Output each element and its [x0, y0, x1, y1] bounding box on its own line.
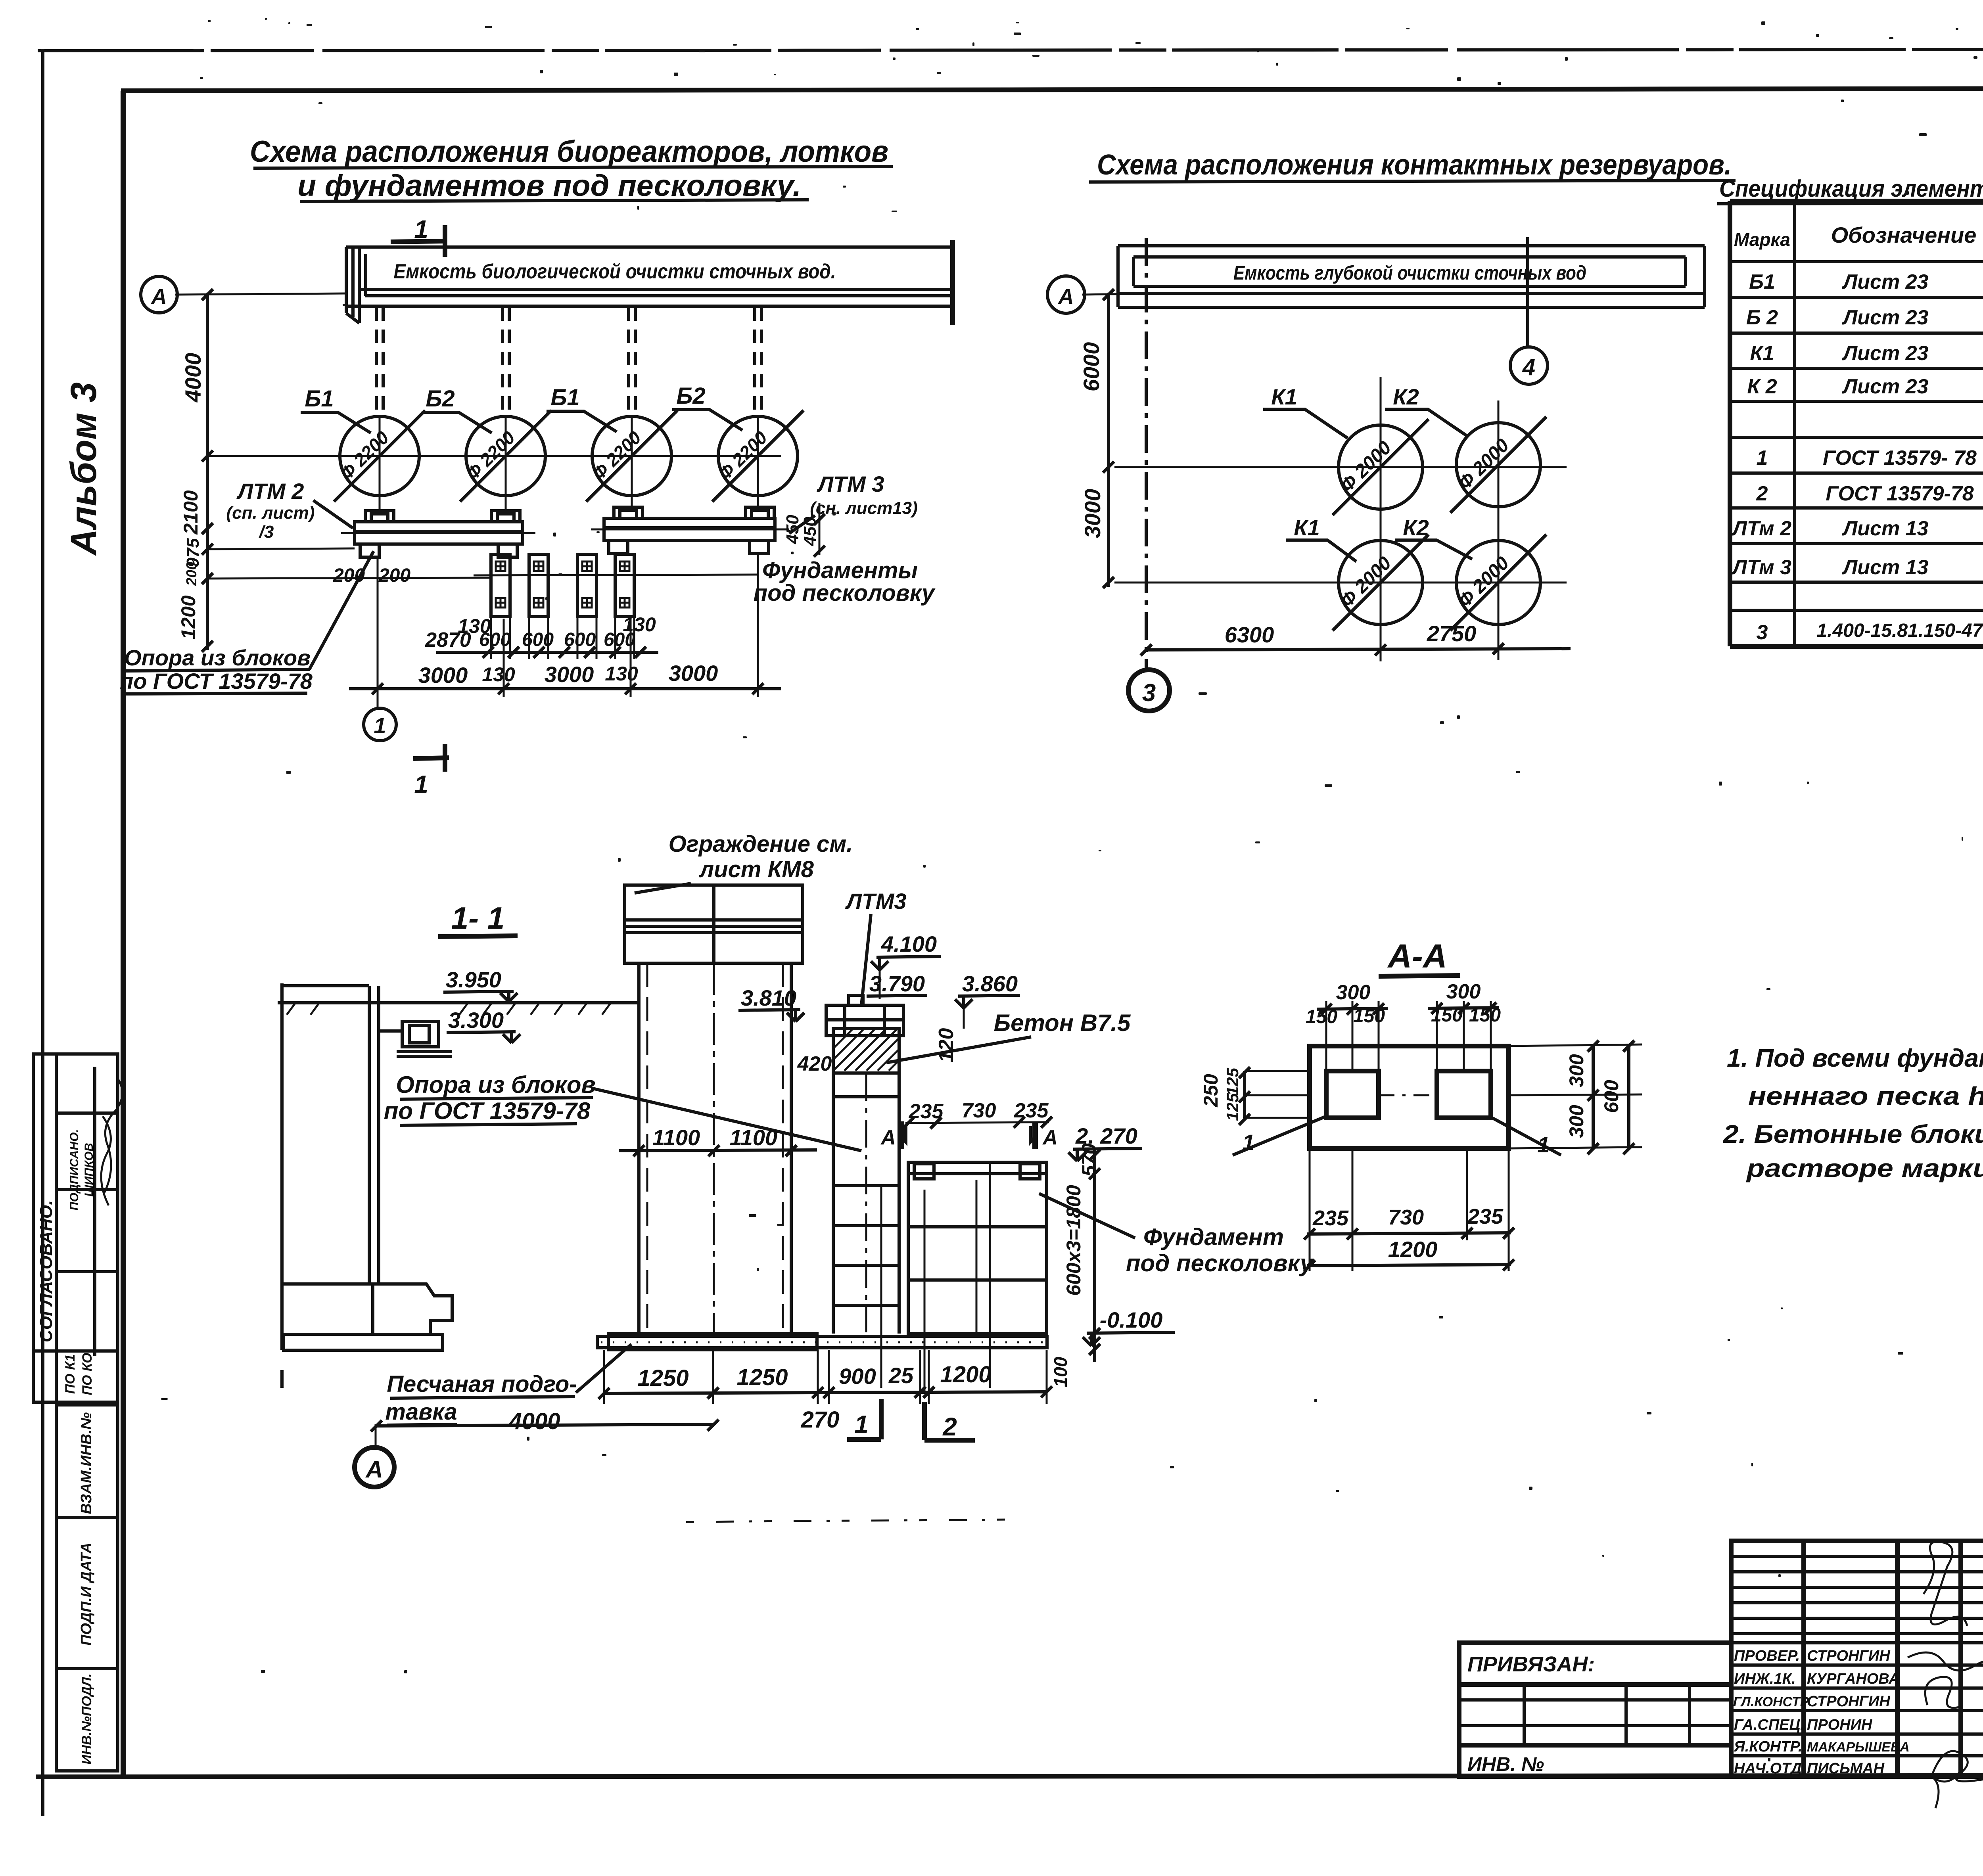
- svg-text:ПОДПИСАНО.: ПОДПИСАНО.: [68, 1129, 81, 1210]
- svg-text:Б1: Б1: [1749, 270, 1775, 293]
- svg-text:А: А: [151, 285, 167, 309]
- svg-text:Спецификация элементов к схеме: Спецификация элементов к схеме, располож…: [1719, 175, 1983, 202]
- svg-text:А: А: [1042, 1126, 1058, 1149]
- svg-text:ГЛ.КОНСТР: ГЛ.КОНСТР: [1733, 1694, 1809, 1709]
- svg-text:3.790: 3.790: [869, 971, 925, 996]
- svg-text:лист КМ8: лист КМ8: [698, 857, 814, 882]
- svg-text:ГА.СПЕЦ.: ГА.СПЕЦ.: [1734, 1717, 1805, 1733]
- svg-text:235: 235: [1312, 1206, 1349, 1230]
- svg-text:Фундамент: Фундамент: [1143, 1224, 1284, 1250]
- svg-text:3: 3: [1142, 679, 1156, 707]
- svg-text:730: 730: [1388, 1205, 1424, 1229]
- svg-text:А: А: [1058, 285, 1074, 309]
- svg-text:Лист 23: Лист 23: [1842, 342, 1929, 365]
- svg-text:ЛТМ 2: ЛТМ 2: [236, 479, 304, 504]
- svg-text:3000: 3000: [1080, 489, 1105, 538]
- svg-text:Я.КОНТР.: Я.КОНТР.: [1734, 1738, 1802, 1755]
- svg-text:1: 1: [374, 713, 386, 738]
- svg-text:125: 125: [1223, 1093, 1242, 1121]
- svg-text:250: 250: [1200, 1074, 1222, 1108]
- svg-text:СТРОНГИН: СТРОНГИН: [1807, 1693, 1891, 1710]
- svg-text:4000: 4000: [508, 1408, 560, 1434]
- svg-text:1: 1: [1537, 1132, 1550, 1157]
- svg-text:К1: К1: [1294, 515, 1320, 540]
- svg-text:ВЗАМ.ИНВ.№: ВЗАМ.ИНВ.№: [78, 1412, 95, 1514]
- svg-text:Альбом 3: Альбом 3: [63, 382, 104, 556]
- svg-text:Опора из блоков: Опора из блоков: [124, 645, 311, 670]
- svg-text:ПО К1: ПО К1: [63, 1354, 78, 1394]
- svg-text:120: 120: [935, 1028, 958, 1063]
- svg-text:600: 600: [479, 629, 511, 650]
- svg-text:растворе марки 50.: растворе марки 50.: [1746, 1154, 1983, 1182]
- svg-text:/3: /3: [259, 522, 274, 542]
- svg-text:К1: К1: [1750, 342, 1774, 365]
- svg-text:1: 1: [1757, 446, 1768, 469]
- svg-text:300: 300: [1336, 981, 1371, 1004]
- svg-text:600х3=1800: 600х3=1800: [1062, 1185, 1085, 1296]
- svg-text:200: 200: [378, 565, 410, 586]
- svg-text:Б1: Б1: [305, 386, 334, 412]
- svg-text:ПРИВЯЗАН:: ПРИВЯЗАН:: [1467, 1652, 1595, 1676]
- svg-text:600: 600: [564, 629, 596, 650]
- svg-text:Емкость глубокой очистки сточн: Емкость глубокой очистки сточных вод: [1233, 262, 1586, 284]
- svg-text:3000: 3000: [669, 661, 718, 686]
- svg-text:ГОСТ 13579- 78: ГОСТ 13579- 78: [1823, 446, 1977, 469]
- svg-text:-0.100: -0.100: [1100, 1307, 1163, 1332]
- svg-text:1200: 1200: [177, 595, 199, 639]
- svg-text:К1: К1: [1271, 384, 1297, 409]
- svg-text:Лист 23: Лист 23: [1842, 306, 1929, 329]
- svg-text:Схема расположения контактных: Схема расположения контактных резервуаро…: [1097, 149, 1732, 181]
- svg-text:Лист 23: Лист 23: [1842, 375, 1929, 398]
- svg-text:МАКАРЫШЕВА: МАКАРЫШЕВА: [1807, 1740, 1910, 1755]
- svg-text:по ГОСТ 13579-78: по ГОСТ 13579-78: [384, 1098, 591, 1124]
- svg-text:1200: 1200: [1388, 1237, 1438, 1262]
- svg-text:Лист 13: Лист 13: [1842, 556, 1929, 579]
- svg-text:А-А: А-А: [1387, 937, 1447, 975]
- svg-text:1- 1: 1- 1: [451, 901, 504, 935]
- svg-text:600: 600: [522, 629, 554, 650]
- svg-text:4000: 4000: [180, 353, 205, 403]
- svg-text:130: 130: [605, 663, 638, 685]
- svg-text:Ограждение см.: Ограждение см.: [669, 831, 853, 857]
- svg-text:6000: 6000: [1079, 342, 1104, 392]
- svg-text:(сп. лист): (сп. лист): [226, 503, 315, 523]
- svg-text:4: 4: [1522, 355, 1535, 380]
- svg-text:ЛТМ 3: ЛТМ 3: [817, 471, 884, 496]
- svg-text:ПРОНИН: ПРОНИН: [1807, 1717, 1873, 1733]
- svg-text:Песчаная подго-: Песчаная подго-: [387, 1371, 577, 1397]
- svg-text:300: 300: [1565, 1054, 1588, 1087]
- svg-text:СТРОНГИН: СТРОНГИН: [1807, 1648, 1891, 1664]
- svg-text:Б2: Б2: [426, 386, 455, 412]
- svg-text:и фундаментов под песколовку.: и фундаментов под песколовку.: [297, 169, 801, 203]
- svg-text:100: 100: [1050, 1357, 1071, 1387]
- svg-text:2750: 2750: [1427, 621, 1477, 646]
- svg-text:КУРГАНОВА: КУРГАНОВА: [1807, 1671, 1900, 1687]
- svg-text:300: 300: [1565, 1105, 1588, 1138]
- svg-text:130: 130: [482, 663, 515, 686]
- svg-text:Фундаменты: Фундаменты: [762, 558, 918, 583]
- svg-text:1.400-15.81.150-47: 1.400-15.81.150-47: [1816, 620, 1983, 641]
- svg-text:ЛТм 3: ЛТм 3: [1731, 556, 1791, 579]
- svg-text:СОГЛАСОВАНО.: СОГЛАСОВАНО.: [36, 1200, 56, 1342]
- svg-text:под песколовку: под песколовку: [1126, 1250, 1314, 1276]
- svg-text:2. Бетонные блоки укладывать н: 2. Бетонные блоки укладывать на цементно…: [1723, 1120, 1983, 1148]
- svg-text:К 2: К 2: [1747, 375, 1777, 398]
- svg-text:неннаго песка h=100мм.: неннаго песка h=100мм.: [1748, 1082, 1983, 1110]
- svg-text:270: 270: [801, 1407, 840, 1433]
- svg-text:А: А: [880, 1126, 896, 1149]
- svg-text:2: 2: [942, 1412, 957, 1441]
- svg-text:К2: К2: [1393, 384, 1419, 409]
- svg-text:600: 600: [1600, 1080, 1622, 1113]
- svg-text:А: А: [365, 1456, 383, 1483]
- svg-text:К2: К2: [1403, 515, 1429, 540]
- svg-text:235: 235: [1467, 1205, 1504, 1228]
- svg-text:1: 1: [414, 770, 428, 799]
- svg-text:150: 150: [1353, 1006, 1385, 1027]
- svg-text:900: 900: [839, 1364, 876, 1389]
- svg-text:Марка: Марка: [1734, 229, 1790, 250]
- svg-text:3.300: 3.300: [448, 1008, 504, 1033]
- svg-text:ШИПКОВ: ШИПКОВ: [82, 1143, 96, 1197]
- svg-text:3000: 3000: [418, 663, 468, 688]
- svg-text:3: 3: [1757, 621, 1768, 644]
- svg-text:235: 235: [909, 1100, 944, 1123]
- svg-text:2100: 2100: [180, 490, 202, 535]
- svg-text:Обозначение: Обозначение: [1831, 222, 1977, 247]
- svg-text:1250: 1250: [637, 1365, 688, 1391]
- svg-text:НАЧ.ОТД: НАЧ.ОТД: [1734, 1760, 1802, 1777]
- svg-text:ПО КО: ПО КО: [80, 1353, 95, 1395]
- svg-text:ИНВ.№ПОДЛ.: ИНВ.№ПОДЛ.: [79, 1673, 94, 1765]
- svg-text:125: 125: [1223, 1067, 1242, 1096]
- svg-text:3.950: 3.950: [446, 967, 501, 992]
- svg-text:300: 300: [1446, 980, 1481, 1003]
- svg-text:Б 2: Б 2: [1746, 306, 1778, 329]
- svg-text:4.100: 4.100: [881, 931, 937, 956]
- svg-text:Схема расположения биореакторо: Схема расположения биореакторов, лотков: [250, 135, 888, 169]
- svg-text:150: 150: [1306, 1006, 1337, 1027]
- svg-text:Лист 13: Лист 13: [1842, 517, 1929, 540]
- svg-text:ПРОВЕР.: ПРОВЕР.: [1734, 1648, 1800, 1664]
- svg-text:Опора из блоков: Опора из блоков: [396, 1071, 595, 1098]
- svg-text:ПИСЬМАН: ПИСЬМАН: [1807, 1760, 1885, 1777]
- svg-text:2870: 2870: [425, 629, 471, 652]
- svg-text:Б2: Б2: [676, 383, 705, 409]
- svg-text:ПОДП.И ДАТА: ПОДП.И ДАТА: [78, 1543, 95, 1646]
- svg-text:200: 200: [183, 562, 199, 586]
- svg-text:под песколовку: под песколовку: [754, 580, 936, 606]
- svg-text:3000: 3000: [545, 662, 594, 687]
- svg-text:тавка: тавка: [385, 1399, 457, 1425]
- svg-text:1100: 1100: [652, 1125, 700, 1150]
- svg-text:1100: 1100: [730, 1125, 777, 1150]
- svg-text:Лист 23: Лист 23: [1842, 270, 1929, 293]
- svg-text:1: 1: [1242, 1130, 1254, 1155]
- svg-text:ИНВ. №: ИНВ. №: [1467, 1753, 1544, 1775]
- svg-text:420: 420: [797, 1052, 832, 1075]
- svg-text:1250: 1250: [736, 1364, 788, 1390]
- svg-text:450: 450: [783, 515, 802, 544]
- svg-text:730: 730: [962, 1099, 996, 1122]
- svg-text:25: 25: [888, 1363, 914, 1388]
- svg-text:6300: 6300: [1225, 622, 1274, 647]
- svg-text:ЛТм 2: ЛТм 2: [1731, 517, 1791, 540]
- svg-text:3.860: 3.860: [962, 971, 1018, 996]
- svg-text:ЛТМ3: ЛТМ3: [845, 889, 906, 914]
- svg-text:1: 1: [854, 1410, 869, 1439]
- svg-text:1. Под всеми фундаментами пред: 1. Под всеми фундаментами предусмотреть …: [1727, 1044, 1983, 1072]
- svg-text:(сн. лист13): (сн. лист13): [810, 498, 918, 518]
- svg-text:3.810: 3.810: [741, 985, 796, 1010]
- svg-text:ГОСТ 13579-78: ГОСТ 13579-78: [1826, 482, 1973, 505]
- svg-text:Бетон В7.5: Бетон В7.5: [994, 1010, 1131, 1036]
- svg-text:150: 150: [1431, 1005, 1463, 1026]
- svg-text:Емкость биологической очистки: Емкость биологической очистки сточных во…: [394, 260, 836, 283]
- svg-text:1200: 1200: [940, 1362, 991, 1387]
- svg-text:235: 235: [1014, 1099, 1049, 1122]
- svg-text:ИНЖ.1К.: ИНЖ.1К.: [1734, 1671, 1796, 1687]
- svg-text:2: 2: [1756, 482, 1768, 505]
- svg-text:150: 150: [1469, 1005, 1501, 1026]
- svg-text:Б1: Б1: [550, 385, 579, 410]
